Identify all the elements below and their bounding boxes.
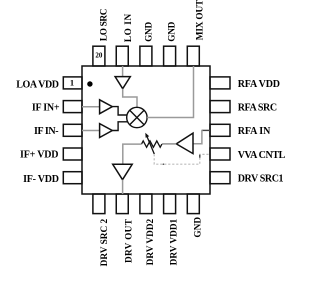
wire DRV amp to DRV OUT <box>122 180 124 194</box>
control line junction dot <box>163 163 165 165</box>
wire RFA amp to attenuator <box>162 143 176 145</box>
control line VVA CNTL (dashed) <box>154 154 210 164</box>
wire IF+ buffer to mixer <box>112 107 127 115</box>
wire attenuator to DRV amp <box>123 144 142 163</box>
svg-text:20: 20 <box>95 52 103 60</box>
pin 14 (RFA SRC) <box>210 101 230 113</box>
amplifier DRV <box>113 164 133 179</box>
svg-text:IF IN+: IF IN+ <box>32 102 60 113</box>
package outline U1 <box>82 66 210 194</box>
wire LO amp to mixer <box>123 89 137 108</box>
control line dark tick <box>199 155 201 158</box>
pin 2 (IF IN+) <box>63 101 82 113</box>
svg-text:GND: GND <box>194 217 204 238</box>
svg-text:LO IN: LO IN <box>124 13 134 42</box>
amplifier LO buffer <box>115 77 130 89</box>
svg-text:DRV OUT: DRV OUT <box>124 218 134 263</box>
svg-text:DRV SRC 2: DRV SRC 2 <box>100 218 110 266</box>
svg-text:1: 1 <box>70 78 74 88</box>
svg-text:RFA IN: RFA IN <box>238 126 271 137</box>
pin 17 (GND) <box>164 46 176 66</box>
pin 20 (LO SRC) <box>93 46 105 66</box>
wire IF- buffer to mixer <box>112 122 127 131</box>
mixer X1 <box>127 107 147 127</box>
pin 9 (DRV VDD1) <box>164 194 176 214</box>
pin 7 (DRV OUT) <box>116 194 128 214</box>
pin 13 (RFA IN) <box>210 124 230 136</box>
pin 8 (DRV VDD2) <box>140 194 152 214</box>
pin 19 (LO IN) <box>116 46 128 66</box>
buffer IF+ <box>100 100 113 114</box>
svg-text:MIX OUT: MIX OUT <box>196 0 206 40</box>
pin 10 (GND) <box>187 194 199 214</box>
svg-text:IF+ VDD: IF+ VDD <box>20 150 58 161</box>
buffer IF- <box>100 124 113 138</box>
pin 12 (VVA CNTL) <box>210 148 230 160</box>
pin 1 indicator dot <box>87 81 92 86</box>
svg-text:IF IN-: IF IN- <box>34 126 58 137</box>
svg-text:RFA VDD: RFA VDD <box>238 79 280 90</box>
wire IF IN- to buffer <box>82 130 100 132</box>
pin 18 (GND) <box>140 46 152 66</box>
pin 5 (IF- VDD) <box>63 172 82 184</box>
svg-text:RFA SRC: RFA SRC <box>238 102 277 113</box>
svg-text:LOA VDD: LOA VDD <box>16 80 58 91</box>
pin 4 (IF+ VDD) <box>63 148 82 160</box>
wire RFA IN to RFA amp <box>202 129 210 131</box>
amplifier RFA <box>176 133 193 154</box>
svg-text:DRV VDD1: DRV VDD1 <box>170 218 180 265</box>
pin 15 (RFA VDD) <box>210 77 230 89</box>
svg-text:DRV SRC1: DRV SRC1 <box>238 174 284 185</box>
svg-text:IF- VDD: IF- VDD <box>23 174 59 185</box>
svg-text:VVA CNTL: VVA CNTL <box>238 150 286 161</box>
pin 16 (MIX OUT) <box>187 46 199 66</box>
pin 3 (IF IN-) <box>63 124 82 136</box>
svg-text:GND: GND <box>168 21 178 41</box>
wire IF IN+ to buffer <box>82 106 100 108</box>
wire mixer to MIX OUT <box>147 66 193 118</box>
pin 11 (DRV SRC1) <box>210 172 230 184</box>
svg-text:GND: GND <box>145 22 155 42</box>
wire LO IN to LO amp <box>122 66 124 77</box>
variable attenuator VVA <box>142 133 162 154</box>
svg-text:DRV VDD2: DRV VDD2 <box>146 218 156 265</box>
pin 6 (DRV SRC 2) <box>93 194 105 214</box>
svg-text:LO SRC: LO SRC <box>100 9 110 41</box>
pin 1 (LOA VDD) <box>63 77 82 89</box>
